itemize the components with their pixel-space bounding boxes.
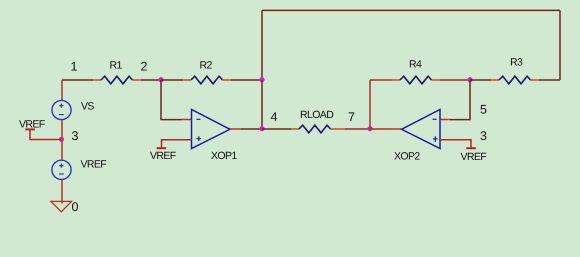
svg-text:R4: R4 xyxy=(409,59,422,71)
pin stub left of RLOAD xyxy=(291,128,299,130)
junction node 4 xyxy=(259,126,264,131)
wire: node 7 vertical up to R4 row xyxy=(369,80,371,129)
svg-text:3: 3 xyxy=(72,129,79,143)
svg-text:1: 1 xyxy=(71,60,78,74)
svg-text:VREF: VREF xyxy=(19,119,45,131)
resistor R4 xyxy=(400,76,432,84)
resistor R1 xyxy=(101,76,133,84)
wire: R3 to top loop right vertical xyxy=(539,79,560,81)
resistor RLOAD xyxy=(299,125,331,133)
pin stub left of R1 xyxy=(93,79,101,81)
svg-text:RLOAD: RLOAD xyxy=(300,109,334,121)
junction node 3 xyxy=(59,137,64,142)
svg-text:4: 4 xyxy=(271,110,278,124)
XOP2 plus pin mark xyxy=(433,136,438,142)
XOP2 minus pin mark xyxy=(433,118,437,120)
pin stub: XOP2 output xyxy=(392,128,402,130)
wire: XOP1 output to node 4 xyxy=(241,128,262,130)
wire: VREF stub to XOP1 plus input xyxy=(162,140,192,149)
VREF connector bar left xyxy=(25,128,35,130)
op-amp XOP1 xyxy=(192,110,231,149)
wire: R1 to node 2 xyxy=(141,79,161,81)
junction node 5 xyxy=(467,77,472,82)
ground symbol xyxy=(51,201,72,211)
voltage source VS xyxy=(52,100,71,119)
wire: R4 to node 5 junction xyxy=(440,79,470,81)
wire: VS to node 3 xyxy=(61,120,63,140)
svg-text:VREF: VREF xyxy=(461,151,487,163)
pin stub left of R4 xyxy=(392,79,400,81)
VS plus mark xyxy=(59,104,63,108)
svg-text:VS: VS xyxy=(81,101,94,113)
wire: RLOAD to node 7 xyxy=(345,128,370,130)
wire: node 2 to R2 xyxy=(161,79,183,81)
svg-text:VREF: VREF xyxy=(81,159,107,171)
pin stub: XOP2 minus input xyxy=(440,119,450,121)
junction node 2 xyxy=(158,77,163,82)
wire: top feedback loop horizontal xyxy=(262,9,560,11)
resistor R2 xyxy=(191,76,223,84)
junction R2 right / top loop xyxy=(259,77,264,82)
pin stub right of R3 xyxy=(531,79,540,81)
wire: node 4 to RLOAD xyxy=(262,128,291,130)
VREF source minus mark xyxy=(59,173,64,175)
VREF source plus mark xyxy=(59,164,63,168)
wire: node 3 down to VREF source xyxy=(61,140,63,161)
pin stub right of R1 xyxy=(133,79,142,81)
junction node 7 xyxy=(367,126,372,131)
wire: vertical from R2 junction down to node 4 xyxy=(261,80,263,129)
pin stub right of RLOAD xyxy=(331,128,346,130)
wire: VREF source to ground xyxy=(61,180,63,204)
wire: node 2 down and into XOP1 minus input xyxy=(161,80,182,120)
pin stub: XOP1 output xyxy=(230,128,241,130)
svg-text:R2: R2 xyxy=(200,60,213,72)
svg-text:7: 7 xyxy=(348,110,355,124)
pin stub right of R2 xyxy=(223,79,232,81)
wire: top loop left vertical down to node 2/R2 junction xyxy=(261,10,263,80)
VREF connector bar at XOP2 xyxy=(466,147,476,149)
pin stub right of R4 xyxy=(432,79,441,81)
VS minus mark xyxy=(59,114,64,116)
wire: left VREF stub to node 3 xyxy=(30,130,62,140)
svg-text:XOP1: XOP1 xyxy=(211,150,237,162)
wire: node 7 to XOP2 output xyxy=(370,128,392,130)
wire: XOP2 plus input to VREF stub xyxy=(440,140,471,149)
voltage source VREF xyxy=(52,160,71,179)
resistor R3 xyxy=(499,76,531,84)
op-amp XOP2 (mirrored) xyxy=(402,110,441,149)
svg-text:VREF: VREF xyxy=(150,150,176,162)
XOP1 plus pin mark xyxy=(196,136,201,141)
wire: node 1 corner down to VS source xyxy=(61,80,63,100)
wire: node 1 horizontal to R1 xyxy=(62,79,93,81)
wire: node 5 to R3 xyxy=(470,79,491,81)
svg-text:2: 2 xyxy=(141,60,148,74)
pin stub left of R3 xyxy=(491,79,499,81)
svg-text:3: 3 xyxy=(480,129,487,143)
XOP1 minus pin mark xyxy=(197,118,201,120)
VREF connector bar at XOP1 xyxy=(157,147,167,149)
svg-text:R1: R1 xyxy=(110,60,123,72)
wire: top loop right vertical down to R3 right xyxy=(559,10,561,80)
svg-text:5: 5 xyxy=(480,103,487,117)
pin stub left of R2 xyxy=(183,79,191,81)
wire: R2 to junction at x=262 xyxy=(231,79,262,81)
svg-text:R3: R3 xyxy=(510,57,523,69)
wire: R4 row left xyxy=(370,79,392,81)
wire: node 5 down into XOP2 minus input xyxy=(450,80,470,120)
svg-text:XOP2: XOP2 xyxy=(394,151,420,163)
pin stub: XOP1 minus input xyxy=(182,119,192,121)
svg-text:0: 0 xyxy=(72,200,79,214)
